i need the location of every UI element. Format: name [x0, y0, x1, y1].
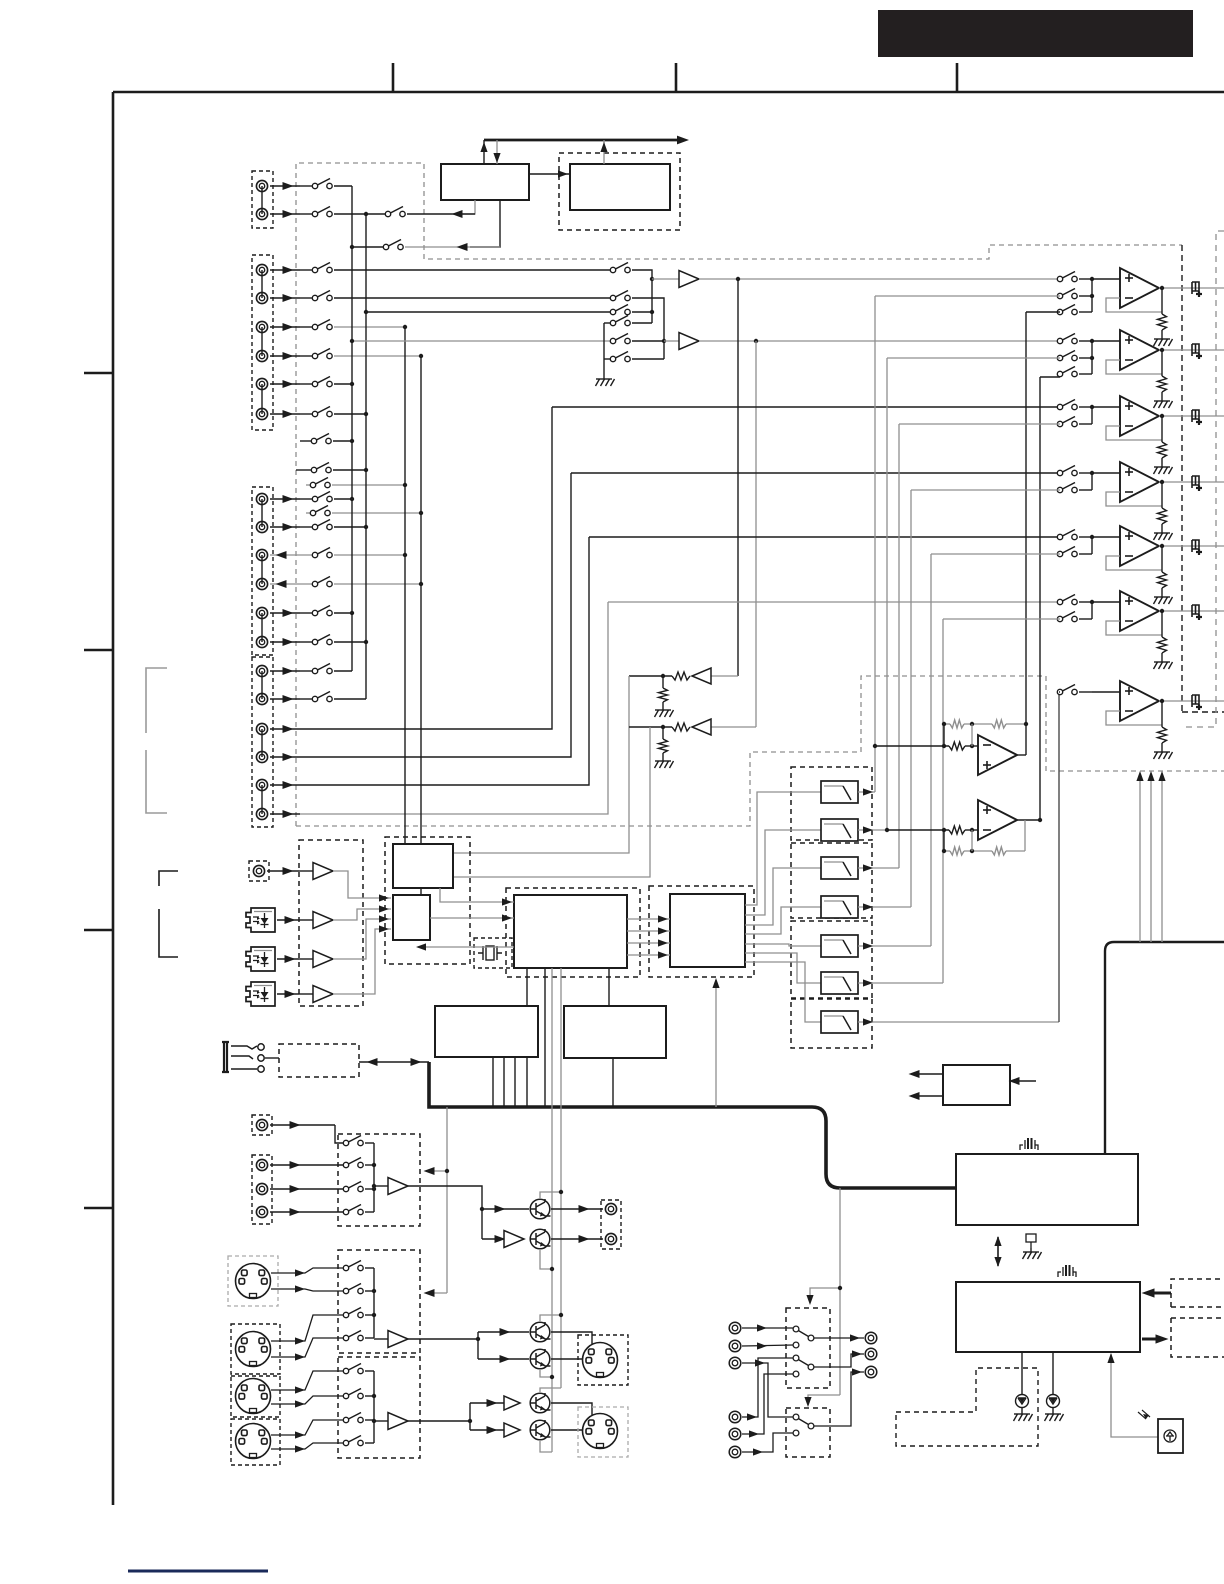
tuner block 2 dashed enclosure	[559, 153, 680, 230]
wire mux to DSP	[430, 917, 514, 919]
shunt resistor row 727	[662, 727, 664, 739]
RCA jack row 270	[256, 264, 267, 275]
op-amp U7 input switches	[1057, 685, 1077, 695]
zone2 switch 2 throw	[793, 1371, 799, 1377]
op-amp U2 output	[1159, 349, 1224, 351]
wire row 270 long to tape switch	[334, 269, 611, 271]
tape cluster switch row 270	[610, 263, 630, 273]
wire row 414	[334, 413, 366, 415]
wire block2 to bus	[603, 140, 605, 164]
phono jack	[249, 861, 269, 881]
buffer U-A tape out L	[650, 277, 654, 281]
op-amp U2 load resistor	[1161, 350, 1163, 376]
microcontroller block	[956, 1282, 1140, 1352]
shunt resistor row 676	[662, 676, 664, 688]
comparator 1 feedback	[944, 723, 950, 725]
vertical from buffer A x738	[737, 279, 739, 676]
op-amp U1 output	[1159, 287, 1224, 289]
output connector U3	[1192, 410, 1202, 425]
vertical to DIR 650	[453, 727, 650, 877]
wire DIN 1289 to row 1291	[271, 1289, 344, 1291]
led 1	[1021, 1352, 1023, 1395]
wire row 602 to op6	[608, 601, 1060, 603]
digital mux block	[393, 895, 430, 940]
op-amp U5 load resistor	[1161, 546, 1163, 572]
filter block 6	[821, 972, 858, 994]
optical buffer 3	[299, 993, 313, 995]
detect box	[943, 1065, 1010, 1105]
rec jack group 2	[252, 1155, 272, 1224]
wire op7 switch feed	[1059, 691, 1060, 693]
DSP block	[514, 895, 627, 968]
vertical bus A x352	[351, 186, 353, 671]
jack group box 3	[252, 487, 273, 655]
wire to Q3	[478, 1331, 529, 1333]
record buffer 1	[374, 1185, 388, 1187]
border top rule	[113, 91, 1224, 94]
vertical comparator2 to op2 x1040	[1039, 377, 1041, 820]
wire Q6 to DIN out 2	[551, 1429, 584, 1431]
wire opt2 to mux	[333, 919, 391, 959]
wire DAC out 1	[745, 792, 821, 905]
buffer to Q2	[482, 1238, 504, 1240]
DIN output 2	[583, 1414, 618, 1449]
wire rec buffer 2 out	[408, 1339, 478, 1359]
system control block	[956, 1154, 1138, 1225]
headphone bidirectional wire	[359, 1061, 429, 1063]
zone2 out jack 2	[865, 1348, 877, 1360]
top tick 2	[675, 63, 678, 92]
tape cluster switch row 312	[366, 311, 611, 313]
remote sensor box	[1158, 1419, 1183, 1453]
wire filter 2 output	[858, 829, 887, 831]
wire row 441	[300, 440, 312, 442]
bracket label 1 top	[146, 668, 167, 733]
remote ir arrows	[1138, 1410, 1150, 1419]
transistor Q5	[530, 1393, 551, 1413]
op-amp U7 load resistor	[1161, 701, 1163, 727]
record bus vertical 2	[373, 1268, 375, 1338]
switch row 1268	[343, 1261, 363, 1271]
led 2 ground	[1045, 1410, 1064, 1421]
vertical bus D x421	[420, 356, 422, 895]
DIN input A	[236, 1264, 271, 1299]
record buffer 3	[374, 1420, 388, 1422]
vertical filter 5 to switch row	[930, 554, 932, 946]
wire row 729 to corner	[300, 407, 552, 729]
left tick 4	[84, 1207, 113, 1210]
jack group box 2	[252, 255, 273, 430]
RCA jack row 527	[256, 521, 267, 532]
zone2 out jack 3	[865, 1366, 877, 1378]
output connector U6	[1192, 605, 1202, 620]
bracket label 1 bottom	[146, 750, 167, 813]
switch row 1420	[343, 1413, 363, 1423]
wire row 356	[334, 355, 421, 357]
comparator 1 output	[1017, 754, 1026, 756]
switch row 1291	[343, 1284, 363, 1294]
reset component	[1026, 1234, 1036, 1248]
record switch row 1212	[343, 1205, 363, 1215]
op-amp U2 input switches	[1057, 334, 1077, 344]
zone2 in jack 2	[729, 1340, 741, 1352]
wire jack1 to sw	[335, 1125, 344, 1143]
op-amp U5 output	[1159, 545, 1224, 547]
op-amp U6 output	[1159, 610, 1224, 612]
arrowhead bus right	[677, 136, 689, 145]
output connector U2	[1192, 344, 1202, 359]
wire r2 op3 from filter	[899, 423, 1060, 425]
RCA jack row 757	[256, 751, 267, 762]
wire row 613	[334, 612, 352, 614]
op-amp U1 feedback	[1106, 298, 1162, 312]
transistor Q6	[530, 1420, 551, 1440]
op-amp U1 load resistor	[1161, 288, 1163, 314]
DSP dashed enclosure	[506, 888, 640, 977]
top tick 3	[956, 63, 959, 92]
wire buffer B out	[699, 340, 1060, 342]
zone2 in jack 4	[729, 1411, 741, 1423]
battery symbol 1	[1020, 1138, 1038, 1150]
record bus vertical 1	[373, 1143, 375, 1212]
op-amp U7 ground	[1154, 748, 1173, 759]
power amp block outline	[1105, 942, 1224, 1156]
tape cluster switch row 341	[352, 340, 611, 342]
op-amp U4 ground	[1154, 529, 1173, 540]
DIN input C	[236, 1379, 271, 1414]
ground tape cluster	[596, 375, 615, 386]
wire DAC out 2	[745, 830, 821, 915]
title block bar	[878, 10, 1193, 57]
DIN out 1 dashed	[578, 1335, 628, 1385]
memory block B	[564, 1006, 666, 1058]
zone2 in jack 1	[729, 1322, 741, 1334]
rec jack row 1165	[256, 1159, 267, 1170]
filter block 7	[821, 1011, 858, 1033]
vertical filter 7 riser	[1058, 692, 1060, 1022]
wire Q4 to DIN out	[551, 1358, 584, 1360]
bus verticals from memory block	[492, 1057, 494, 1107]
bottom-left label rule	[128, 1570, 268, 1573]
RCA jack row 186	[256, 180, 267, 191]
wire DIN 1404 to row 1396	[271, 1396, 344, 1404]
op-amp U3 feedback	[1106, 426, 1162, 440]
op-amp U4 input switches	[1057, 466, 1077, 476]
top tick 1	[392, 63, 395, 92]
jack pair link 384-414	[261, 384, 263, 414]
RCA jack row 814	[256, 808, 267, 819]
Q3 collector wire	[540, 1315, 561, 1321]
zone2 switch 1	[793, 1326, 814, 1341]
vertical filter 6 to switch row	[942, 619, 944, 983]
RCA jack row 414	[256, 408, 267, 419]
wire row 247	[352, 246, 384, 248]
wire DIN 1357 to row 1338	[271, 1338, 344, 1357]
vertical bus C x405	[404, 327, 406, 844]
switch row 1338	[343, 1331, 363, 1341]
RCA jack row 384	[256, 378, 267, 389]
filter bank dashed box 4	[791, 999, 872, 1048]
record switch row 1165	[343, 1158, 363, 1168]
battery symbol 2	[1058, 1265, 1076, 1277]
dashed output column dark bottom	[1182, 711, 1224, 713]
DIR block	[393, 844, 453, 888]
switch row 1315	[343, 1308, 363, 1318]
zone2 out wire 1	[814, 1337, 864, 1339]
wire filter 7 output	[858, 1021, 1059, 1023]
tape cluster switch row 323	[604, 322, 611, 324]
RCA jack out row 584	[256, 578, 267, 589]
output connector U4	[1192, 476, 1202, 491]
zone2 in jack 6	[729, 1446, 741, 1458]
op-amp U5 input switches	[1057, 530, 1077, 540]
bus verticals from DSP	[526, 968, 528, 1107]
jack pair link 613-642	[261, 613, 263, 642]
jack pair link 327-356	[261, 327, 263, 356]
vertical comparator1 to op1 x1026	[1025, 312, 1027, 755]
jack group box 1	[252, 171, 273, 228]
headphone amp dashed box	[279, 1044, 359, 1077]
DAC block	[670, 894, 745, 967]
rec jack row 1212	[256, 1206, 267, 1217]
optical buffer 2	[299, 958, 313, 960]
op-amp U6	[1092, 601, 1120, 603]
wire block1 to block2	[529, 173, 570, 175]
bracket label 2 top	[159, 871, 178, 886]
dashed boundary analog region	[296, 163, 1182, 826]
headphone jack	[222, 1042, 264, 1072]
wire r2 op5 from filter	[931, 553, 1060, 555]
wire block1 to bus up	[483, 140, 485, 164]
tape cluster switch row 298	[610, 291, 630, 301]
wire r2 op4 from filter	[911, 489, 1060, 491]
wire row 214	[334, 213, 386, 215]
RCA jack row 671	[256, 665, 267, 676]
left tick 1	[84, 372, 113, 375]
display dashed box right 2	[1171, 1318, 1224, 1357]
vertical bus B x366	[365, 214, 367, 699]
comparator 2 feedback	[944, 850, 950, 852]
record feed arrow 1	[427, 1170, 447, 1172]
output connector U7	[1192, 695, 1202, 710]
rec out jacks	[601, 1200, 621, 1249]
wire DAC out 7	[745, 962, 821, 1022]
filter block 2	[821, 819, 858, 841]
RCA jack row 785	[256, 779, 267, 790]
wire DIN 1341 to row 1315	[271, 1315, 344, 1341]
filter bank dashed box 1	[791, 767, 872, 840]
DIN input D	[236, 1424, 271, 1459]
wire row 470	[296, 469, 312, 471]
bus vertical to control x840	[839, 1188, 841, 1395]
zone2 in jack 3	[729, 1357, 741, 1369]
wire phono buffer to mux	[333, 871, 391, 898]
wire row 527	[334, 526, 366, 528]
op-amp U3 load resistor	[1161, 416, 1163, 442]
tuner block 2	[570, 164, 670, 210]
wire row 814 to corner	[300, 602, 608, 814]
RCA jack out row 555	[256, 549, 267, 560]
wire r2 op2 from filter	[887, 357, 1060, 359]
bus vertical from boxB	[612, 1058, 614, 1107]
op-amp U2 ground	[1154, 397, 1173, 408]
vertical filter 3 to switch row	[898, 424, 900, 868]
op-amp U1 input switches	[1057, 272, 1077, 282]
wire block1 pin B down	[470, 200, 500, 247]
wire r2 op6 from filter	[943, 618, 1060, 620]
record switch box 1	[338, 1134, 420, 1226]
op-amp comparator 2	[978, 800, 1017, 840]
wire Q3 to DIN out	[551, 1332, 592, 1344]
op-amp U5 feedback	[1106, 556, 1162, 570]
record bus vertical 3	[373, 1371, 375, 1443]
system-micro double arrow	[997, 1237, 999, 1266]
wire row 699	[334, 698, 366, 700]
Q1 collector wire	[540, 1192, 561, 1198]
zone2 switch box 1	[786, 1308, 830, 1388]
wire row 757 to corner	[300, 473, 571, 757]
wire opt1 to mux	[333, 909, 391, 920]
bracket label 2 bottom	[159, 909, 178, 957]
wire DIN 1435 to row 1420	[271, 1420, 344, 1435]
buffer box dashed	[299, 840, 363, 1006]
op-amp U6 feedback	[1106, 621, 1162, 635]
record buffer 2	[374, 1338, 388, 1340]
filter block 5	[821, 935, 858, 957]
left tick 2	[84, 649, 113, 652]
wire rec buffer 1 out	[408, 1186, 482, 1239]
wire r3 op1 from comparator	[1026, 311, 1060, 313]
wire to buffer Q6	[470, 1429, 504, 1431]
RCA jack row 499	[256, 493, 267, 504]
comparator 1 input wire	[875, 745, 949, 747]
filter block 1	[821, 781, 858, 803]
wire buffer A out	[699, 278, 1060, 280]
wire row 298 long	[334, 297, 611, 299]
RCA jack row 356	[256, 350, 267, 361]
wire row 473 to op4	[571, 472, 1060, 474]
memory block A	[435, 1006, 538, 1057]
vertical from buffer B x756	[755, 341, 757, 727]
jack pair link 671-699	[261, 671, 263, 699]
wire row 513	[306, 512, 311, 514]
wire filter 4 output	[858, 906, 911, 908]
tuner block 1	[441, 164, 529, 200]
wire bus to block1 down	[496, 140, 498, 164]
DIN output 1	[583, 1343, 618, 1378]
dashed boundary lower	[296, 676, 1224, 826]
vertical filter 4 to switch row	[910, 490, 912, 907]
wire DAC out 3	[745, 868, 821, 925]
wire row 327	[334, 326, 405, 328]
DIN out 2 dashed	[578, 1407, 628, 1457]
jack pair link 270-298	[261, 270, 263, 298]
display dashed box right 1	[1171, 1279, 1224, 1307]
zone2 switch 3	[793, 1414, 814, 1429]
op-amp U4 load resistor	[1161, 482, 1163, 508]
RCA jack row 327	[256, 321, 267, 332]
bus vertical record feed x447	[446, 1107, 448, 1293]
jack group box 4	[252, 657, 273, 827]
wire row 555 out	[334, 554, 405, 556]
zone2 out wire 2	[814, 1354, 864, 1367]
dashed region around leds	[896, 1368, 1038, 1446]
filter block 4	[821, 896, 858, 918]
DIR dashed enclosure	[385, 837, 470, 964]
op-amp U7	[1092, 691, 1120, 693]
record feed arrow 2	[427, 1292, 447, 1294]
jack pair link 785-814	[261, 785, 263, 814]
remote sensor wire	[1111, 1354, 1158, 1437]
RCA jack row 642	[256, 636, 267, 647]
wire r2 op1 from filter	[875, 295, 1060, 297]
wire r3 op2 from comparator	[1040, 376, 1060, 378]
left tick 3	[84, 929, 113, 932]
op-amp U5	[1092, 536, 1120, 538]
tape cluster switch row 359	[604, 358, 611, 360]
phono buffer	[299, 870, 313, 872]
thick arrow from display	[1148, 1292, 1171, 1295]
op-amp U3 ground	[1154, 463, 1173, 474]
wire Q2 to jack	[551, 1238, 603, 1240]
wire DAC out 5	[745, 944, 821, 946]
wire DIR to DSP	[440, 888, 514, 902]
jack pair link 186-214	[261, 186, 263, 214]
op-amp U7 output	[1159, 700, 1224, 702]
led 2	[1052, 1352, 1054, 1395]
RCA jack row 699	[256, 693, 267, 704]
Q5 collector wire	[540, 1388, 561, 1392]
RCA jack row 729	[256, 723, 267, 734]
jack pair link 729-757	[261, 729, 263, 757]
DIN input C dashed	[231, 1376, 280, 1417]
wire filter 3 output	[858, 867, 899, 869]
op-amp U6 load resistor	[1161, 611, 1163, 637]
wire block1 pin A down	[462, 200, 475, 214]
transistor Q3	[530, 1322, 551, 1342]
jack pair link 555-584	[261, 555, 263, 584]
buffer U-B tape out R	[664, 340, 679, 342]
zone2 out wire 3	[814, 1372, 864, 1426]
wire DAC out 6	[745, 953, 821, 983]
op-amp U3	[1092, 406, 1120, 408]
optical input 2	[246, 947, 275, 971]
ground row 676	[655, 706, 674, 717]
wire row 485	[306, 484, 311, 486]
thick arrow to display	[1142, 1338, 1162, 1341]
optical buffer 1	[299, 919, 313, 921]
op-amp U5 ground	[1154, 593, 1173, 604]
ground row 727	[655, 757, 674, 768]
wire to buffer Q5	[470, 1402, 504, 1404]
wire to Q1	[482, 1208, 529, 1210]
op-amp U1 ground	[1154, 335, 1173, 346]
wire DSP to mux return	[418, 946, 514, 948]
DIN input A dashed	[228, 1256, 278, 1306]
DIN input B dashed	[231, 1324, 280, 1374]
led 1 ground	[1014, 1410, 1033, 1421]
control arrow 2	[808, 1395, 840, 1404]
rec jack row 1189	[256, 1183, 267, 1194]
wire DIN 1390 to row 1371	[271, 1371, 344, 1390]
switch row 1443	[343, 1436, 363, 1446]
wire row 537 to op5	[589, 536, 1060, 538]
wire DIN 1449 to row 1443	[271, 1443, 344, 1449]
wire row 407 to op3	[552, 406, 1060, 408]
switch row 1371	[343, 1364, 363, 1374]
wire boxB to DSP	[608, 968, 610, 1006]
jack pair link 499-527	[261, 499, 263, 527]
